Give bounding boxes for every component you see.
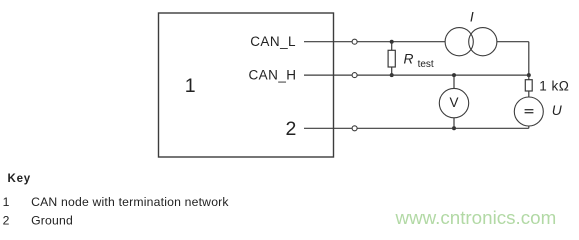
svg-text:U: U: [552, 103, 563, 118]
svg-text:R: R: [404, 51, 414, 66]
wire right vertical drop from CAN_L level to CAN_H level: [528, 42, 530, 75]
svg-text:CAN_L: CAN_L: [250, 34, 296, 49]
terminal open circle on CAN_H: [352, 73, 357, 78]
svg-text:www.cntronics.com: www.cntronics.com: [395, 207, 557, 228]
svg-text:CAN_H: CAN_H: [248, 68, 296, 83]
wire ground terminal to voltage source: [357, 127, 529, 129]
wire from current source to right vertical: [497, 41, 529, 43]
voltage source U (circle with = sign): [514, 97, 543, 126]
node junction: R_test bottom on CAN_H: [390, 73, 394, 77]
current source I (two interlocking circles): [445, 28, 497, 56]
wire CAN_H terminal to right vertical: [357, 74, 529, 76]
node junction: right vertical on CAN_H: [527, 73, 531, 77]
svg-text:2: 2: [3, 214, 10, 228]
svg-text:1: 1: [3, 195, 10, 209]
key item 1: CAN node with termination network: [3, 195, 230, 209]
terminal open circle on CAN_L: [352, 39, 357, 44]
svg-text:1: 1: [185, 75, 196, 97]
svg-text:I: I: [470, 10, 474, 25]
svg-text:2: 2: [285, 118, 296, 140]
CAN node box U1 (node 1 with termination network): [159, 13, 334, 157]
node junction: R_test top on CAN_L: [390, 40, 394, 44]
node junction: voltmeter bottom on ground line: [452, 126, 456, 130]
svg-text:Ground: Ground: [31, 214, 73, 228]
svg-text:Key: Key: [8, 173, 32, 185]
wire voltmeter bottom lead: [453, 118, 455, 129]
wire CAN_L from box to terminal: [304, 41, 352, 43]
value label R_test: [404, 51, 434, 70]
resistor 1 kOhm (body and leads): [525, 75, 532, 97]
terminal open circle on ground line: [352, 126, 357, 131]
voltmeter V (circle): [439, 88, 468, 117]
wire voltage source bottom to ground line: [528, 126, 530, 128]
svg-text:CAN node with termination netw: CAN node with termination network: [31, 195, 229, 209]
resistor R_test (body and leads): [388, 42, 395, 75]
node junction: voltmeter top on CAN_H: [452, 73, 456, 77]
key item 2: Ground: [3, 214, 73, 228]
wire voltmeter top lead: [453, 75, 455, 88]
wire CAN_L terminal to current source: [357, 41, 445, 43]
svg-text:V: V: [449, 95, 458, 110]
wire ground from box to terminal: [304, 127, 352, 129]
wire CAN_H from box to terminal: [304, 74, 352, 76]
svg-text:1 kΩ: 1 kΩ: [539, 79, 569, 94]
svg-text:test: test: [418, 59, 434, 70]
